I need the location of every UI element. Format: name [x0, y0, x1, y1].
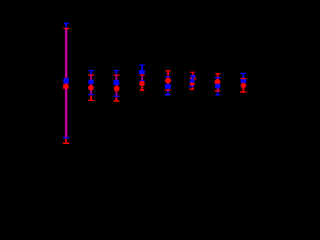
cluster 1 (x=66) : blue series errorbar: [64, 23, 69, 24]
cluster 8 (x=243): [240, 73, 246, 74]
cluster 3 (x=116): [114, 70, 119, 71]
cluster 6 (x=192) overlapping pair: [190, 72, 195, 73]
cluster 2 (x=91): [88, 70, 93, 71]
cluster 4 (x=142): [139, 64, 144, 65]
cluster 5 (x=168): [165, 70, 171, 71]
cluster 7 (x=217.6): [215, 73, 220, 74]
